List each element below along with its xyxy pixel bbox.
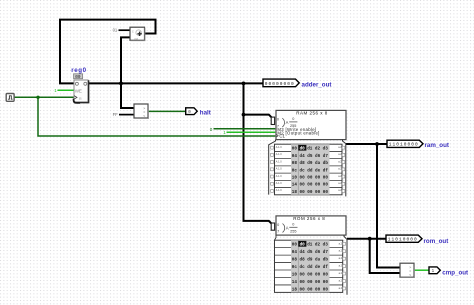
svg-text:1: 1 (223, 130, 226, 135)
register reg0 value display 00 (74, 74, 83, 80)
svg-text:a.2: a.2 (338, 168, 342, 171)
wire rom_out to comparator2 B (370, 239, 400, 273)
svg-text:C1: C1 (279, 134, 285, 139)
output pin halt (186, 108, 198, 115)
comparator U2 (halt) (134, 104, 148, 118)
node junction at bus x243.5 (242, 82, 246, 86)
wire clock net (value 0, dark green) (14, 96, 74, 98)
svg-text:a.2: a.2 (338, 153, 342, 156)
RAM row tabs (276, 146, 342, 192)
svg-text:d0: d0 (300, 147, 306, 152)
svg-text:11010000: 11010000 (388, 237, 418, 243)
svg-text:a.2: a.2 (338, 146, 342, 149)
wire constant FF to comparator B (119, 114, 134, 116)
wire RAM address stub (244, 115, 272, 118)
svg-text:a.2: a.2 (339, 265, 343, 268)
svg-text:00000000: 00000000 (265, 81, 295, 87)
svg-text:18 00 00 00 00: 18 00 00 00 00 (292, 287, 329, 292)
svg-text:11010000: 11010000 (389, 142, 419, 148)
svg-text:d1 d2 d3: d1 d2 d3 (307, 243, 328, 248)
svg-text:04 d4 d5 d6 d7: 04 d4 d5 d6 d7 (292, 250, 329, 255)
svg-text:0c dc dd de df: 0c dc dd de df (292, 265, 329, 270)
adder U1 (130, 27, 145, 41)
output pin rom_out (386, 235, 422, 243)
svg-text:ROM 256 x 8: ROM 256 x 8 (293, 216, 325, 221)
svg-text:0: 0 (292, 223, 294, 227)
svg-text:14 00 00 00 00: 14 00 00 00 00 (292, 280, 329, 285)
wire constant 01 to adder A (119, 29, 131, 31)
wire ram_out to comparator2 A (377, 144, 400, 268)
svg-text:a.2: a.2 (339, 250, 343, 253)
node junction RAM address (242, 113, 246, 117)
svg-text:a.2: a.2 (339, 287, 343, 290)
svg-text:A.1.0: A.1.0 (276, 146, 282, 149)
svg-text:<: < (143, 114, 145, 118)
svg-text:a.2: a.2 (338, 182, 342, 185)
wire ROM D output to rom_out pin (347, 238, 386, 240)
svg-text:0: 0 (292, 117, 294, 121)
svg-text:01: 01 (113, 27, 118, 32)
svg-text:d1 d2 d3: d1 d2 d3 (307, 147, 328, 152)
svg-text:00: 00 (75, 75, 81, 80)
svg-text:0c dc dd de df: 0c dc dd de df (292, 168, 329, 173)
svg-text:A.1.0: A.1.0 (276, 189, 282, 192)
svg-text:A: A (286, 226, 289, 231)
RAM contents text (292, 147, 329, 195)
svg-text:adder_out: adder_out (302, 82, 332, 89)
svg-text:A.1.0: A.1.0 (276, 160, 282, 163)
output pin cmp_out (429, 267, 440, 274)
wire clock net down to RAM C1 (38, 97, 275, 136)
svg-text:a.2: a.2 (339, 272, 343, 275)
svg-text:10 00 00 00 00: 10 00 00 00 00 (292, 273, 329, 278)
wire comparator2 equals to cmp_out pin (value 1) (414, 269, 429, 271)
ROM memory rows (275, 235, 348, 295)
svg-text:0: 0 (210, 127, 213, 132)
svg-text:18 00 00 00 00: 18 00 00 00 00 (292, 190, 329, 195)
svg-text:WE: WE (75, 88, 82, 93)
svg-text:R: R (79, 97, 82, 101)
wire constant 1 to reg0 WE (value 1, bright green) (58, 89, 74, 91)
svg-text:A: A (286, 120, 289, 125)
svg-text:RAM 256 x 8: RAM 256 x 8 (296, 110, 328, 115)
comparator U5 (cmp) (400, 263, 414, 277)
wire main bus reg0 Q east (88, 82, 264, 84)
RAM U3 header (271, 110, 346, 139)
svg-text:cmp_out: cmp_out (442, 269, 468, 276)
svg-text:a.2: a.2 (339, 257, 343, 260)
svg-text:08 d8 d9 da db: 08 d8 d9 da db (292, 258, 329, 263)
svg-text:reg0: reg0 (71, 67, 86, 74)
svg-text:rom_out: rom_out (424, 238, 449, 245)
output pin ram_out (387, 140, 423, 148)
ROM U4 header (271, 216, 346, 235)
node junction ram_out branch (375, 142, 379, 146)
svg-text:00: 00 (292, 147, 298, 152)
wire constant 1 to RAM M2 (value 1) (227, 131, 276, 133)
svg-text:<: < (409, 273, 411, 277)
svg-text:a.2: a.2 (339, 242, 343, 245)
node junction clock net (36, 96, 39, 99)
wire constant 0 to RAM M3 (value 0) (214, 128, 276, 130)
svg-text:7: 7 (277, 230, 279, 234)
svg-text:A.1.0: A.1.0 (276, 182, 282, 185)
clock input pin (6, 94, 14, 102)
ROM row tabs (339, 242, 343, 290)
output pin adder_out (263, 79, 299, 87)
wire RAM D output to ram_out pin (346, 143, 387, 145)
svg-text:08 d8 d9 da db: 08 d8 d9 da db (292, 161, 329, 166)
svg-text:00: 00 (292, 243, 298, 248)
svg-text:c: c (132, 30, 134, 34)
svg-text:out: out (134, 37, 138, 41)
svg-text:0: 0 (277, 118, 279, 122)
svg-text:FF: FF (113, 112, 119, 117)
wire bus branch to adder B and comparator A (121, 37, 134, 108)
wire comparator1 equals to halt pin (value 0) (148, 110, 186, 112)
svg-text:04 d4 d5 d6 d7: 04 d4 d5 d6 d7 (292, 154, 329, 159)
wire top feedback loop (adder out to reg0 D) (60, 20, 156, 84)
svg-text:a.2: a.2 (338, 175, 342, 178)
svg-text:a.2: a.2 (338, 189, 342, 192)
svg-text:0: 0 (277, 223, 279, 227)
svg-text:a.2: a.2 (338, 160, 342, 163)
svg-text:10 00 00 00 00: 10 00 00 00 00 (292, 176, 329, 181)
svg-text:halt: halt (200, 109, 211, 116)
svg-text:A.1.0: A.1.0 (276, 175, 282, 178)
svg-text:255: 255 (290, 229, 296, 233)
node junction rom_out branch (368, 237, 372, 241)
svg-text:ram_out: ram_out (425, 142, 449, 149)
svg-text:d0: d0 (300, 243, 306, 248)
RAM memory rows (269, 140, 346, 197)
svg-text:A.1.0: A.1.0 (276, 153, 282, 156)
svg-text:14 00 00 00 00: 14 00 00 00 00 (292, 183, 329, 188)
wire bus branch to RAM A and ROM A (244, 83, 272, 223)
register reg0 (74, 80, 89, 103)
svg-text:A.1.0: A.1.0 (276, 168, 282, 171)
ROM contents text (292, 243, 329, 293)
svg-text:a.2: a.2 (339, 280, 343, 283)
node junction at bus x121 (119, 82, 123, 86)
